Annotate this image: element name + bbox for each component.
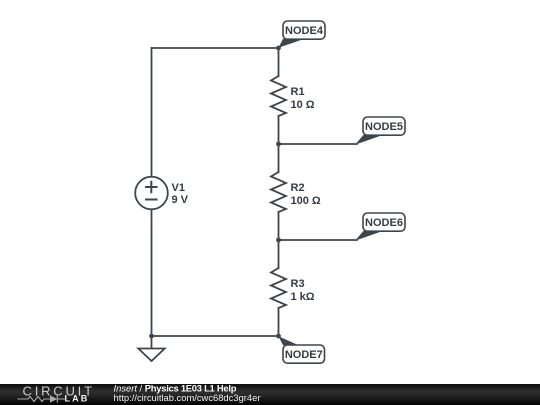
svg-text:R2: R2 <box>291 182 305 194</box>
svg-text:NODE7: NODE7 <box>285 349 323 361</box>
wire right branch segment 1 <box>278 48 280 76</box>
wire right branch segment 3 <box>278 212 280 268</box>
junction node6 <box>276 238 281 243</box>
node NODE5 <box>355 117 405 145</box>
label V1 value <box>172 182 189 206</box>
footer bar <box>0 384 540 405</box>
node NODE6 <box>355 213 405 241</box>
svg-text:http://circuitlab.com/cwc68dc3: http://circuitlab.com/cwc68dc3gr4er <box>114 392 261 403</box>
junction node ground <box>149 334 154 339</box>
label R1 value <box>291 86 315 111</box>
junction node bottom right <box>276 334 281 339</box>
wire left branch upper <box>151 48 153 177</box>
logo diode triangle <box>50 395 57 402</box>
junction node top <box>276 46 281 51</box>
label R2 value <box>291 182 321 207</box>
wire node6 stub <box>279 239 358 241</box>
wire left branch lower <box>151 209 153 336</box>
logo schematic line <box>18 395 66 402</box>
node NODE4 <box>279 21 326 48</box>
ground <box>138 336 164 361</box>
svg-text:10 Ω: 10 Ω <box>291 99 315 111</box>
label R3 value <box>291 278 315 303</box>
svg-text:1 kΩ: 1 kΩ <box>291 291 315 303</box>
svg-text:9 V: 9 V <box>172 194 189 206</box>
resistor R3 <box>271 268 286 308</box>
svg-text:NODE5: NODE5 <box>365 121 403 133</box>
resistor R2 <box>271 172 286 212</box>
wire right branch segment 2 <box>278 116 280 172</box>
svg-text:V1: V1 <box>172 182 185 194</box>
svg-text:NODE6: NODE6 <box>365 217 403 229</box>
wire top rail <box>152 47 279 49</box>
wire right branch segment 4 <box>278 308 280 336</box>
svg-text:LAB: LAB <box>65 393 90 403</box>
resistor R1 <box>271 76 286 116</box>
svg-text:R1: R1 <box>291 86 305 98</box>
wire node5 stub <box>279 143 358 145</box>
svg-text:R3: R3 <box>291 278 305 290</box>
junction node5 <box>276 142 281 147</box>
node NODE7 <box>279 336 325 363</box>
voltage source V1 <box>135 177 168 210</box>
wire bottom rail <box>152 335 279 337</box>
svg-text:100 Ω: 100 Ω <box>291 195 321 207</box>
svg-text:NODE4: NODE4 <box>285 25 324 37</box>
